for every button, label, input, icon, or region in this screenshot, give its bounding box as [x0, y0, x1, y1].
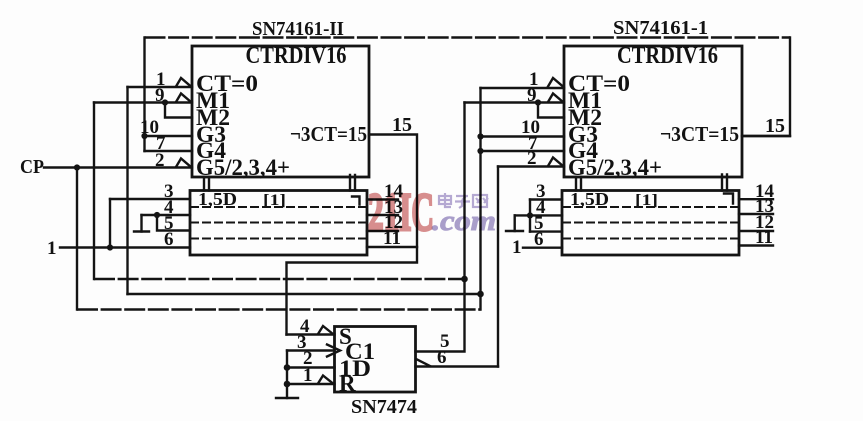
svg-text:[1]: [1]: [635, 192, 658, 209]
svg-text:1,5D: 1,5D: [198, 189, 237, 209]
svg-text:2: 2: [155, 150, 165, 171]
svg-text:CP: CP: [20, 156, 44, 178]
svg-text:R: R: [339, 371, 356, 396]
svg-text:1,5D: 1,5D: [570, 189, 609, 209]
svg-text:15: 15: [392, 114, 412, 136]
svg-text:2: 2: [527, 148, 537, 169]
svg-text:6: 6: [437, 347, 447, 368]
svg-text:CTRDIV16: CTRDIV16: [617, 43, 718, 69]
svg-text:SN7474: SN7474: [351, 396, 417, 418]
svg-text:.com: .com: [432, 206, 496, 237]
svg-text:6: 6: [164, 229, 174, 250]
svg-text:1: 1: [47, 238, 57, 259]
svg-text:6: 6: [534, 229, 544, 250]
svg-text:[1]: [1]: [263, 192, 286, 209]
svg-text:¬3CT=15: ¬3CT=15: [290, 122, 367, 146]
svg-text:1: 1: [303, 365, 313, 386]
svg-text:21IC: 21IC: [368, 182, 434, 242]
svg-text:9: 9: [527, 85, 537, 106]
svg-text:15: 15: [765, 115, 785, 137]
svg-text:1: 1: [512, 237, 522, 258]
svg-text:CTRDIV16: CTRDIV16: [246, 43, 347, 69]
svg-text:¬3CT=15: ¬3CT=15: [660, 122, 739, 146]
svg-text:9: 9: [155, 85, 165, 106]
svg-text:11: 11: [755, 227, 773, 248]
svg-text:SN74161-1: SN74161-1: [613, 17, 708, 39]
